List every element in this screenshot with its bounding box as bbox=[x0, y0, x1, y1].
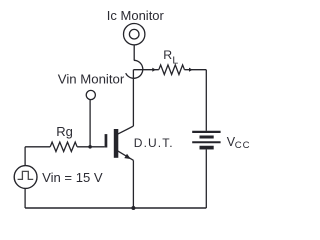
wire RL to corner bbox=[184, 69, 206, 71]
source pulse symbol bbox=[18, 171, 34, 179]
arrowhead current direction 1 bbox=[152, 68, 156, 72]
resistor RL bbox=[159, 65, 185, 75]
svg-text:Vin Monitor: Vin Monitor bbox=[58, 71, 125, 86]
battery VCC plate 3 long bbox=[192, 141, 220, 143]
battery VCC plate 4 short bbox=[200, 146, 214, 150]
wire right vertical bottom bbox=[205, 150, 207, 209]
wire bottom bbox=[25, 207, 206, 209]
wire source bottom bbox=[24, 188, 26, 208]
wire collector to RL bbox=[133, 69, 158, 71]
Ic Monitor meter inner circle bbox=[129, 29, 139, 39]
source Vin circle bbox=[14, 166, 37, 189]
wire source top bbox=[24, 147, 26, 166]
battery VCC plate 2 short bbox=[200, 136, 214, 139]
svg-text:Rg: Rg bbox=[56, 124, 73, 139]
svg-text:D.U.T.: D.U.T. bbox=[134, 136, 174, 150]
wire gate right bbox=[77, 146, 105, 148]
wire Vin monitor probe bbox=[89, 100, 91, 147]
battery VCC plate 1 long bbox=[192, 131, 220, 133]
wire emitter vertical bbox=[132, 160, 134, 208]
svg-text:Vin = 15 V: Vin = 15 V bbox=[42, 170, 103, 185]
Ic Monitor meter outer circle bbox=[124, 24, 145, 45]
wire monitor stem bbox=[133, 45, 135, 61]
transistor emitter arrowhead bbox=[124, 154, 131, 159]
transistor D.U.T. body bar bbox=[114, 129, 119, 158]
wire gate left bbox=[25, 146, 50, 148]
svg-text:Ic Monitor: Ic Monitor bbox=[107, 8, 165, 23]
node emitter junction dot bbox=[131, 206, 135, 210]
node gate junction dot bbox=[88, 145, 92, 149]
arrowhead current direction 2 bbox=[189, 68, 193, 72]
resistor Rg bbox=[50, 142, 77, 151]
wire collector vertical bbox=[132, 70, 134, 126]
Vin Monitor probe circle bbox=[86, 90, 95, 99]
transistor emitter lead bbox=[118, 151, 134, 161]
wire right vertical top bbox=[205, 70, 207, 131]
svg-text:R: R bbox=[163, 48, 172, 62]
current probe loop bbox=[126, 60, 143, 78]
transistor D.U.T. gate bar bbox=[105, 134, 108, 147]
transistor collector lead bbox=[118, 126, 134, 134]
svg-text:CC: CC bbox=[235, 140, 251, 151]
